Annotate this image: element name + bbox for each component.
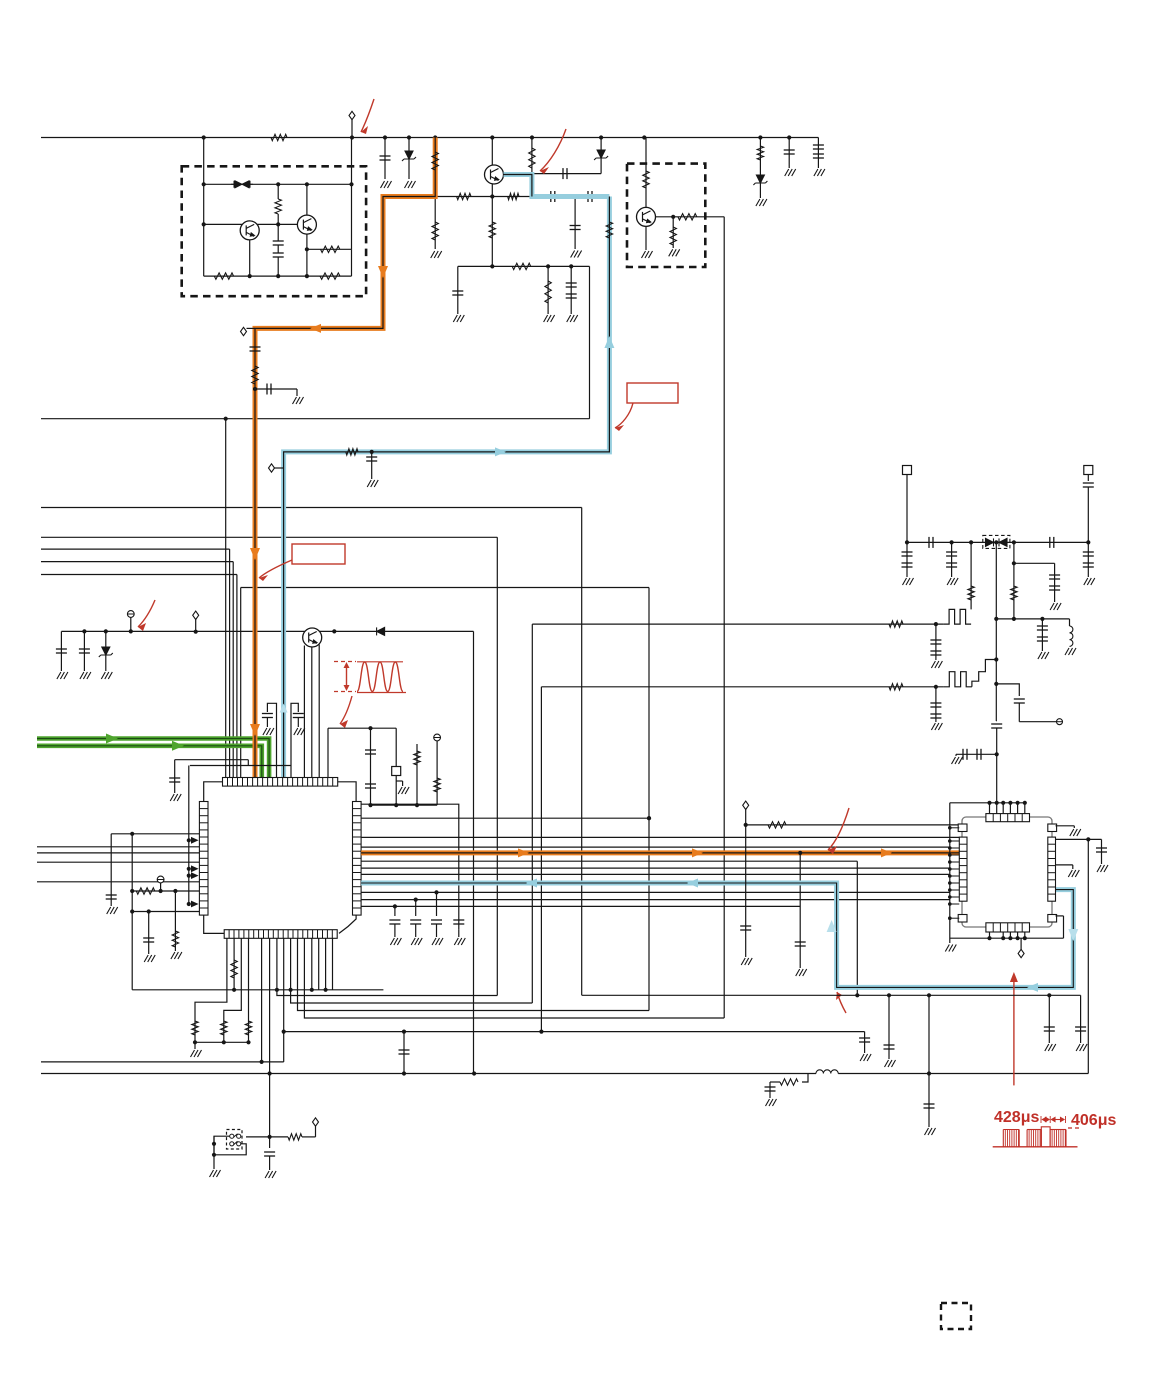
- svg-text:406μs: 406μs: [1071, 1112, 1116, 1129]
- svg-text:428μs: 428μs: [994, 1109, 1039, 1126]
